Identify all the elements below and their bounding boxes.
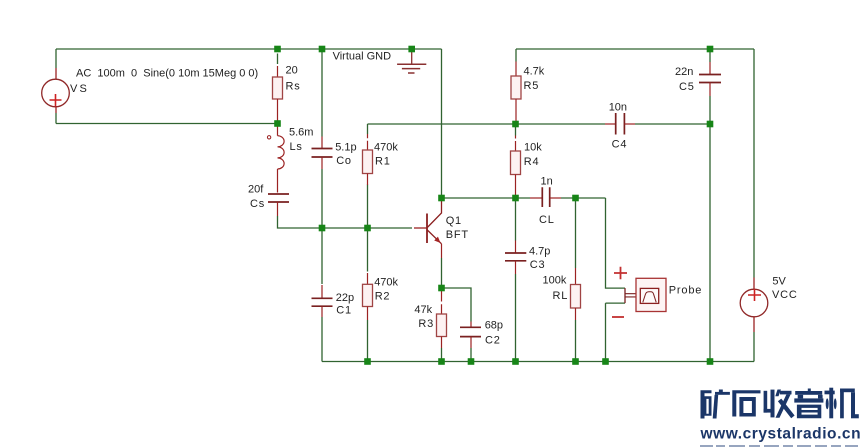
svg-text:Ls: Ls: [290, 141, 303, 153]
junction top rail at Co: [319, 46, 326, 53]
svg-text:Co: Co: [336, 155, 352, 167]
wire base row 198: [442, 197, 606, 199]
svg-text:22p: 22p: [336, 292, 354, 304]
svg-text:Q1: Q1: [446, 215, 462, 227]
svg-text:R3: R3: [418, 318, 434, 330]
wire VS bottom drop: [55, 113, 57, 124]
wire C5 column: [709, 49, 711, 362]
svg-text:47k: 47k: [414, 304, 432, 316]
wire top rail right segment: [516, 48, 754, 50]
junction bottom rail at RL: [572, 358, 579, 365]
svg-text:Virtual GND: Virtual GND: [333, 51, 392, 63]
svg-text:Rs: Rs: [286, 80, 301, 92]
probe minus terminal: [612, 316, 624, 318]
svg-text:1n: 1n: [541, 175, 553, 187]
voltage source VS: [42, 68, 70, 113]
junction bottom rail at C5 column: [707, 358, 714, 365]
svg-text:5.6m: 5.6m: [289, 126, 313, 138]
junction bottom rail at probe: [602, 358, 609, 365]
svg-text:AC 100m 0 Sine(0 10m 15Meg: AC 100m 0 Sine(0 10m 15Meg 0 0): [76, 67, 258, 79]
capacitor Co: [312, 137, 333, 170]
wire probe column lower: [606, 303, 626, 361]
junction row198 at RL: [572, 195, 579, 202]
svg-text:68p: 68p: [485, 319, 503, 331]
svg-text:470k: 470k: [374, 277, 398, 289]
svg-text:VS: VS: [70, 83, 89, 95]
svg-text:C2: C2: [485, 335, 501, 347]
svg-text:BFT: BFT: [446, 229, 469, 241]
capacitor C4: [605, 113, 635, 135]
svg-text:Cs: Cs: [250, 198, 265, 210]
svg-text:100k: 100k: [543, 275, 567, 287]
junction mid rail at C5 bottom: [707, 121, 714, 128]
svg-text:VCC: VCC: [772, 289, 798, 301]
resistor R3: [437, 288, 447, 348]
ground symbol: [397, 49, 426, 73]
voltage source VCC: [740, 278, 768, 333]
probe U1: [625, 278, 666, 311]
svg-text:www.crystalradio.cn: www.crystalradio.cn: [700, 426, 862, 443]
svg-text:R4: R4: [524, 156, 540, 168]
resistor RL: [571, 268, 581, 320]
wire R1 R2 column: [367, 124, 369, 362]
svg-text:C1: C1: [336, 304, 352, 316]
svg-text:20: 20: [286, 65, 298, 77]
wire R4 top stub: [515, 124, 517, 136]
inductor Ls: [267, 124, 284, 193]
wire emitter down: [441, 258, 443, 288]
junction base row at R1 R2: [364, 225, 371, 232]
junction top rail at Rs: [274, 46, 281, 53]
svg-text:20f: 20f: [248, 183, 264, 195]
svg-text:5.1p: 5.1p: [335, 141, 356, 153]
junction bottom rail at R3: [438, 358, 445, 365]
svg-text:470k: 470k: [374, 141, 398, 153]
junction bottom rail at C2: [468, 358, 475, 365]
junction base row at Co: [319, 225, 326, 232]
junction top rail at C5: [707, 46, 714, 53]
svg-text:22n: 22n: [675, 66, 693, 78]
svg-text:C5: C5: [679, 81, 695, 93]
wire C3 column: [515, 198, 517, 362]
wire left row VS to Ls: [56, 123, 278, 125]
svg-text:10n: 10n: [609, 101, 627, 113]
capacitor C3: [505, 241, 526, 275]
svg-text:R5: R5: [524, 80, 540, 92]
resistor Rs: [273, 54, 283, 124]
svg-text:4.7k: 4.7k: [524, 66, 545, 78]
transistor Q1: [414, 198, 442, 258]
junction row198 at collector: [438, 195, 445, 202]
junction row198 at R4 C3: [512, 195, 519, 202]
wire emitter to C2 branch: [442, 288, 472, 362]
wire VCC column: [753, 49, 755, 362]
capacitor Cs: [268, 194, 289, 216]
wire top rail left segment: [56, 48, 442, 50]
wire R3 bottom: [441, 348, 443, 362]
probe plus terminal: [614, 267, 627, 279]
svg-text:C4: C4: [612, 139, 628, 151]
junction top rail at ground: [408, 46, 415, 53]
wire probe column upper: [606, 198, 626, 288]
capacitor C1: [312, 285, 333, 317]
resistor R1: [363, 134, 373, 185]
resistor R2: [363, 273, 373, 320]
svg-text:Probe: Probe: [669, 284, 702, 296]
junction bottom rail at R2: [364, 358, 371, 365]
svg-text:4.7p: 4.7p: [529, 246, 550, 258]
svg-text:C3: C3: [530, 259, 546, 271]
watermark bottom edge remnants: [700, 445, 858, 447]
capacitor C2: [460, 322, 481, 349]
junction left row at Ls: [274, 120, 281, 127]
capacitor C5: [699, 62, 721, 96]
capacitor CL: [530, 187, 561, 207]
resistor R4: [511, 136, 521, 199]
wire R5 top stub: [515, 49, 517, 62]
svg-text:5V: 5V: [772, 276, 786, 288]
svg-text:10k: 10k: [524, 142, 542, 154]
wire RL column: [575, 198, 577, 362]
resistor R5: [511, 62, 521, 125]
wire mid rail y124: [368, 123, 711, 125]
svg-text:R1: R1: [375, 156, 391, 168]
svg-text:RL: RL: [553, 290, 569, 302]
wire VS top drop: [55, 49, 57, 68]
svg-text:R2: R2: [375, 291, 391, 303]
junction bottom rail at C3: [512, 358, 519, 365]
wire bottom rail: [322, 361, 754, 363]
wire collector column: [441, 49, 443, 198]
svg-text:CL: CL: [539, 214, 555, 226]
junction mid rail at R5 R4: [512, 121, 519, 128]
wire Cs bottom corner to base row: [278, 216, 413, 228]
watermark logo: [701, 388, 859, 419]
junction emitter node: [438, 285, 445, 292]
wire Co column: [321, 49, 323, 362]
